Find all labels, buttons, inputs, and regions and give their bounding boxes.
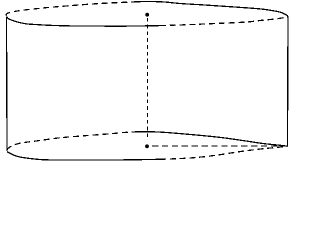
top face back arc left (dashed, hidden) xyxy=(6,2,131,16)
top face front arc right (solid) xyxy=(131,2,288,17)
center point of bottom face xyxy=(145,144,149,148)
bottom face back arc right (dashed, hidden) xyxy=(160,146,288,159)
bottom face front arc right (solid) xyxy=(137,132,288,147)
axis of cylinder (dashed) xyxy=(146,18,148,139)
bottom face front arc left (solid) xyxy=(7,152,160,161)
cylinder left side edge xyxy=(6,17,9,151)
top face front arc left (solid) xyxy=(7,17,161,26)
cylinder right side edge xyxy=(287,16,290,146)
bottom face back arc left (dashed, hidden) xyxy=(7,132,137,150)
radius of base (dashed) xyxy=(152,145,287,147)
top face back arc right (dashed, hidden) xyxy=(160,16,288,25)
center point of top face xyxy=(145,13,149,17)
